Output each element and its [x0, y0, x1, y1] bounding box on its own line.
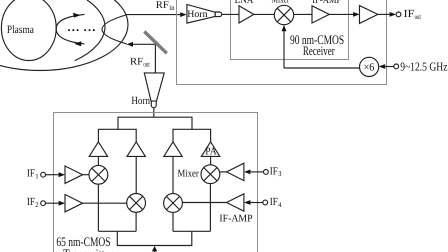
beam arc in plasma	[102, 15, 127, 44]
mixer 2	[127, 194, 146, 213]
amplifier PA1	[89, 142, 107, 157]
svg-text:2: 2	[35, 200, 39, 209]
svg-text:Horn: Horn	[187, 9, 207, 20]
mixer 4	[164, 194, 183, 213]
wire RF tree trunk	[118, 117, 192, 129]
amplifier IF2	[65, 195, 83, 212]
svg-text:Plasma: Plasma	[7, 24, 34, 36]
arrow IF2	[59, 201, 65, 206]
receiver inner box	[231, 0, 349, 60]
wire IF3 to amp	[249, 171, 264, 173]
wire LO below mixer4	[172, 212, 174, 231]
wire RF branch right	[173, 129, 211, 142]
multiplier x6	[360, 57, 379, 76]
wire LO trunk	[117, 231, 192, 245]
mirror	[144, 32, 167, 54]
mixer 1	[89, 165, 108, 184]
svg-text:3: 3	[278, 169, 282, 178]
amplifier PA2	[127, 142, 145, 157]
arrow into horn	[180, 12, 186, 17]
amplifier IF-AMP	[312, 6, 329, 23]
svg-text:RF: RF	[156, 0, 169, 11]
arrow IF1	[59, 172, 65, 177]
wire amp4 to mixer4	[182, 202, 226, 204]
svg-text:IF: IF	[27, 196, 35, 208]
wire horn into tx box	[153, 108, 155, 118]
arrow RF out into plasma	[127, 42, 133, 47]
svg-text:Receiver: Receiver	[303, 43, 335, 58]
plasma dots	[68, 29, 95, 31]
circulation arrow bottom	[74, 41, 81, 46]
terminal IF3	[264, 170, 269, 175]
mixer rx	[274, 5, 293, 24]
terminal IF2	[41, 201, 46, 206]
arrow into x6	[379, 64, 385, 69]
plasma left inner ellipse	[1, 0, 56, 60]
wire LO up to mixer	[283, 29, 285, 68]
wire amp1 to mixer1	[83, 174, 89, 176]
wire PA3 to mixer4	[172, 156, 174, 193]
wire RF branch left	[98, 129, 136, 142]
wire amp2 to mixer2	[83, 202, 127, 204]
amplifier IF4	[227, 194, 244, 211]
svg-text:LNA: LNA	[235, 0, 254, 6]
wire PA1 to mixer1	[97, 156, 99, 165]
mixer 3	[201, 165, 220, 184]
wire IF1 to amp	[46, 174, 61, 176]
receiver outer box	[177, 0, 387, 85]
svg-text:×6: ×6	[364, 62, 375, 74]
wire mixer to IF-AMP	[294, 13, 312, 15]
svg-text:IF: IF	[404, 8, 415, 20]
arrow IF3	[244, 170, 250, 175]
wire RF in to horn	[126, 14, 182, 16]
svg-text:out: out	[143, 60, 149, 69]
plasma outer ellipse	[0, 0, 128, 71]
wire horn to LNA	[222, 13, 239, 15]
svg-text:IF: IF	[27, 167, 35, 179]
svg-text:Horn: Horn	[131, 95, 150, 107]
wire IF4 to amp	[249, 202, 263, 204]
horn tx	[144, 73, 164, 101]
svg-text:9~12.5 GHz: 9~12.5 GHz	[400, 60, 447, 74]
wire x6 to mixer column	[284, 67, 360, 69]
svg-text:IF-AMP: IF-AMP	[219, 214, 252, 225]
terminal IF1	[41, 172, 46, 177]
wire LO branch right	[173, 230, 210, 232]
terminal IF4	[263, 200, 268, 205]
svg-text:Mixer: Mixer	[272, 0, 290, 5]
svg-text:RF: RF	[130, 57, 143, 68]
arrow IF4	[244, 200, 250, 205]
amplifier PA3	[164, 142, 182, 157]
amplifier buffer	[360, 6, 378, 24]
amplifier LNA	[239, 6, 254, 23]
amplifier IF3	[227, 163, 244, 180]
wire LO below mixer2	[135, 212, 137, 231]
wire amp3 to mixer3	[219, 171, 226, 173]
wire mirror down to tx horn	[154, 44, 156, 73]
wire LO below mixer3	[209, 184, 211, 232]
wire LO branch left	[98, 230, 136, 232]
svg-text:IF-AMP: IF-AMP	[312, 0, 341, 6]
wire PA4 to mixer3	[210, 156, 212, 164]
plasma circulation arc	[56, 14, 84, 44]
wire buffer to IFout	[378, 13, 392, 15]
svg-text:1: 1	[35, 171, 39, 180]
arrow into buffer	[353, 12, 359, 17]
transmitter box	[54, 113, 258, 252]
wire 9-12.5GHz to x6	[384, 66, 394, 68]
wire PA2 to mixer2	[135, 156, 137, 193]
svg-text:in: in	[169, 3, 175, 12]
svg-text:IF: IF	[270, 196, 278, 208]
svg-text:out: out	[415, 12, 421, 21]
arrow LO input	[152, 246, 157, 251]
wire LO below mixer1	[97, 184, 99, 231]
svg-text:Mixer: Mixer	[178, 168, 200, 179]
svg-text:4: 4	[278, 200, 282, 209]
terminal 9-12.5GHz	[394, 64, 399, 69]
horn rx	[187, 5, 215, 24]
arrow LO into mixer	[282, 25, 287, 31]
terminal IFout	[396, 12, 401, 17]
svg-text:Transmitter: Transmitter	[63, 246, 114, 252]
wire IF-AMP to buffer	[329, 13, 354, 15]
amplifier IF1	[65, 166, 83, 183]
wire RF out from mirror to plasma	[132, 43, 156, 45]
amplifier PA4	[201, 142, 219, 157]
svg-text:IF: IF	[270, 165, 278, 177]
plasma right inner ellipse	[75, 0, 105, 61]
circulation arrow top	[73, 13, 81, 18]
wire IF2 to amp	[46, 202, 61, 204]
svg-text:PA: PA	[205, 147, 217, 158]
arrow to IFout terminal	[390, 12, 396, 17]
wire LNA to mixer	[254, 13, 274, 15]
